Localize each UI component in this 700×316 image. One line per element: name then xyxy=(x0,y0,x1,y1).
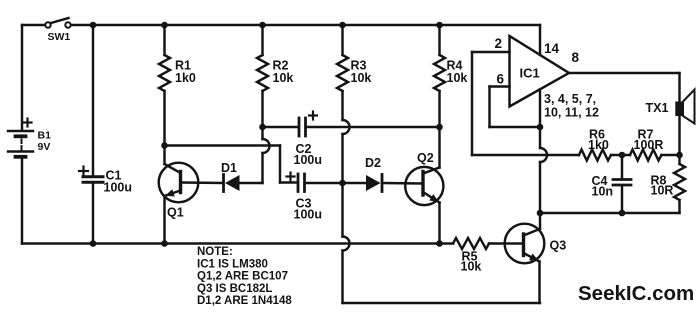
transistor Q1 xyxy=(159,163,199,203)
svg-text:D1: D1 xyxy=(221,161,237,175)
node Q1 collector xyxy=(161,142,168,149)
wire R4 to C2 node xyxy=(438,91,440,127)
wire R8 top xyxy=(678,155,680,164)
wire R3 rail to hop xyxy=(341,91,343,120)
wire pin 14 xyxy=(539,25,541,55)
svg-text:6: 6 xyxy=(497,72,505,87)
node R7 R8 speaker xyxy=(676,152,683,159)
wire C1 rail upper xyxy=(92,25,94,176)
wire R1 to Q1 collector node xyxy=(163,91,165,146)
battery B1 xyxy=(8,131,33,157)
svg-text:9V: 9V xyxy=(38,141,51,153)
node top C1 xyxy=(90,22,97,29)
wire C4 bottom xyxy=(621,186,623,213)
resistor R5 xyxy=(453,238,489,249)
wire R6 to C4 node xyxy=(611,154,630,156)
svg-text:2: 2 xyxy=(495,36,503,51)
svg-text:1k0: 1k0 xyxy=(588,138,609,152)
wire hop R3 rail over ground rail xyxy=(343,237,350,251)
wire left rail upper xyxy=(21,25,23,131)
wire hop IC pins rail over feedback wire xyxy=(540,148,547,162)
svg-text:1k0: 1k0 xyxy=(175,71,196,85)
wire R2 rail top xyxy=(261,25,263,55)
wire R3 rail top xyxy=(341,25,343,55)
plus sign C1 xyxy=(79,167,88,176)
wire Q1 base to D1 xyxy=(182,181,224,184)
svg-text:10k: 10k xyxy=(447,71,468,85)
capacitor C2 xyxy=(299,118,306,136)
svg-text:NOTE:: NOTE: xyxy=(197,246,233,258)
svg-text:10n: 10n xyxy=(592,185,614,199)
capacitor C4 xyxy=(613,180,631,186)
svg-text:Q1,2 ARE BC107: Q1,2 ARE BC107 xyxy=(197,271,288,283)
wire Q1 collector xyxy=(163,146,165,165)
svg-text:TX1: TX1 xyxy=(646,101,669,115)
wire D2 cathode to Q2 base xyxy=(383,182,422,185)
svg-text:10k: 10k xyxy=(273,71,294,85)
node top R4 xyxy=(436,22,443,29)
svg-text:100u: 100u xyxy=(294,153,323,167)
node C2 left xyxy=(259,124,266,131)
node C3 D2 xyxy=(339,180,346,187)
svg-text:IC1 IS LM380: IC1 IS LM380 xyxy=(197,258,268,270)
svg-text:Q3: Q3 xyxy=(550,239,567,253)
svg-text:100u: 100u xyxy=(294,208,323,222)
wire R4 rail top xyxy=(438,25,440,55)
svg-text:B1: B1 xyxy=(38,130,52,142)
speaker TX1 xyxy=(675,90,694,124)
wire Q2 emitter xyxy=(438,203,440,244)
svg-text:10k: 10k xyxy=(461,260,482,274)
svg-text:10R: 10R xyxy=(651,184,674,198)
wire C4 top xyxy=(621,155,623,178)
wire IC ground pins xyxy=(539,90,541,128)
wire pin 6 xyxy=(490,87,541,128)
node R6 R7 C4 xyxy=(619,152,626,159)
resistor R1 xyxy=(159,55,170,91)
wire pin 2 to R6 xyxy=(472,154,579,156)
wire pin 2 xyxy=(472,52,510,155)
resistor R4 xyxy=(434,55,445,91)
wire C1 rail lower xyxy=(92,184,94,244)
resistor R8 xyxy=(674,164,685,200)
wire C2 right to R4 rail xyxy=(307,126,440,128)
wire left rail lower xyxy=(21,159,23,244)
wire R5 to Q3 base xyxy=(489,242,522,244)
svg-text:D1,2 ARE 1N4148: D1,2 ARE 1N4148 xyxy=(197,295,292,307)
wire R2 rail to C2 node xyxy=(261,127,263,139)
note block xyxy=(197,246,292,307)
plus sign C3 xyxy=(287,173,295,181)
svg-text:3, 4, 5, 7,: 3, 4, 5, 7, xyxy=(544,92,596,106)
diode D2 xyxy=(366,175,382,192)
wire Q2 collector xyxy=(438,127,440,168)
wire node to D2 xyxy=(343,182,367,184)
wire hop R2 rail over node wire xyxy=(263,139,270,153)
wire IC pins rail to Q3 collector node xyxy=(539,162,541,213)
node C2 right xyxy=(436,124,443,131)
svg-text:10, 11, 12: 10, 11, 12 xyxy=(544,106,599,120)
diode D1 xyxy=(224,175,240,192)
node C4 bottom xyxy=(619,210,626,217)
wire C3 to node xyxy=(306,182,343,184)
svg-text:IC1: IC1 xyxy=(520,66,540,81)
node pin6 join xyxy=(537,124,544,131)
node top R2 xyxy=(259,22,266,29)
capacitor C3 xyxy=(298,174,305,192)
wire Q3 collector xyxy=(539,213,541,229)
switch SW1 xyxy=(45,18,70,28)
wire top rail right of SW1 xyxy=(71,24,540,26)
wire Q1 collector node to C3 xyxy=(165,146,298,183)
wire bottom ground rail xyxy=(22,242,453,244)
wire speaker to R7 R8 node xyxy=(678,116,680,155)
resistor R7 xyxy=(630,150,662,161)
resistor R6 xyxy=(579,150,611,161)
svg-text:Q3 IS BC182L: Q3 IS BC182L xyxy=(197,283,272,295)
transistor Q3 xyxy=(505,224,545,264)
wire bottom right rail xyxy=(540,212,680,214)
wire Q1 emitter xyxy=(163,196,165,244)
resistor R3 xyxy=(337,55,348,91)
wire top rail left of SW1 xyxy=(22,24,45,26)
transistor Q2 xyxy=(405,167,443,205)
svg-text:10k: 10k xyxy=(351,71,372,85)
wire D1 anode xyxy=(240,182,263,184)
node ground Q1 xyxy=(161,240,168,247)
node top R1 xyxy=(161,22,168,29)
node ground Q2 xyxy=(436,240,443,247)
plus sign battery xyxy=(24,119,32,127)
wire R3 rail bottom xyxy=(341,251,343,304)
wire C2 left xyxy=(263,126,299,128)
wire Q3 emitter xyxy=(538,262,540,304)
svg-text:SW1: SW1 xyxy=(48,31,71,43)
svg-text:SeekIC.com: SeekIC.com xyxy=(578,282,694,305)
capacitor C1 xyxy=(83,177,103,183)
wire pin 8 output xyxy=(569,73,680,102)
wire R3 rail below node xyxy=(341,183,343,237)
wire R7 to speaker node xyxy=(662,154,680,156)
resistor R2 xyxy=(257,55,268,91)
op-amp IC1 xyxy=(510,36,570,107)
svg-text:14: 14 xyxy=(544,41,560,56)
wire R8 bottom xyxy=(678,200,680,213)
node ground C1 xyxy=(90,240,97,247)
svg-text:Q1: Q1 xyxy=(167,206,184,220)
wire hop R3 rail over C2 wire xyxy=(343,120,350,134)
svg-text:100u: 100u xyxy=(104,181,133,195)
svg-text:Q2: Q2 xyxy=(417,151,434,165)
plus sign C2 xyxy=(309,112,317,120)
svg-text:100R: 100R xyxy=(634,138,664,152)
svg-text:D2: D2 xyxy=(365,156,381,170)
node Q3 collector xyxy=(537,210,544,217)
wire R2 rail lower segment xyxy=(261,153,263,183)
svg-text:8: 8 xyxy=(572,50,580,65)
wire R1 rail top xyxy=(163,25,165,55)
node top R3 xyxy=(339,22,346,29)
wire R3 rail to C3 node xyxy=(341,134,343,183)
wire bottom link R3 to Q3 emitter xyxy=(343,302,541,304)
